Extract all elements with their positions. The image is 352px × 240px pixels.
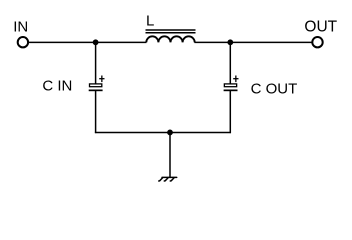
wire bottom right segment xyxy=(170,131,231,133)
wire IN terminal to node A xyxy=(29,41,96,43)
capacitor C OUT xyxy=(224,76,239,91)
node G xyxy=(167,130,173,136)
wire C OUT top lead xyxy=(229,42,231,84)
capacitor C IN xyxy=(89,76,105,91)
svg-text:C OUT: C OUT xyxy=(251,81,298,98)
wire node A to inductor xyxy=(96,41,147,43)
wire C IN top lead xyxy=(95,42,97,84)
svg-text:OUT: OUT xyxy=(304,18,337,35)
inductor L xyxy=(146,30,196,42)
svg-text:L: L xyxy=(146,13,154,30)
node B xyxy=(227,39,233,45)
svg-text:C IN: C IN xyxy=(42,78,72,95)
wire ground stem xyxy=(169,132,171,177)
wire node B to OUT terminal xyxy=(230,41,311,43)
wire bottom left segment xyxy=(95,131,170,133)
terminal OUT xyxy=(312,37,322,47)
node A xyxy=(93,39,99,45)
terminal IN xyxy=(18,37,28,47)
svg-text:IN: IN xyxy=(13,18,28,35)
wire inductor to node B xyxy=(194,41,230,43)
wire C IN bottom lead xyxy=(95,90,97,133)
ground xyxy=(159,177,177,181)
wire C OUT bottom lead xyxy=(229,90,231,133)
